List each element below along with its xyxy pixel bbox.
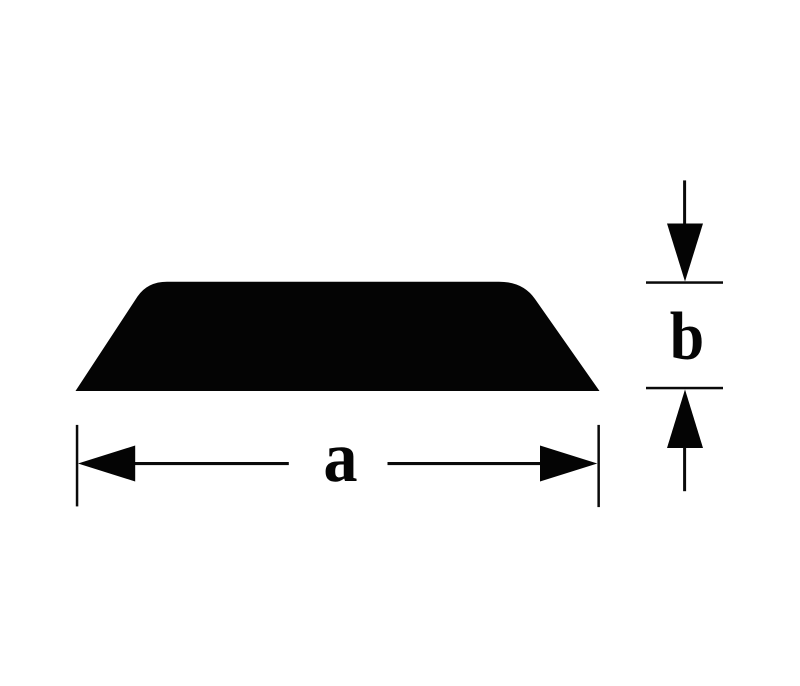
arrowhead b up: [667, 390, 703, 449]
arrowhead a left: [78, 446, 135, 482]
dimension line a, left segment: [130, 462, 289, 465]
arrowhead a right: [540, 446, 597, 482]
svg-text:a: a: [323, 417, 357, 497]
tick line b bottom: [646, 387, 723, 390]
dimension b, upper vertical line: [683, 180, 686, 224]
arrowhead b down: [667, 224, 703, 282]
dimension b, lower vertical line: [683, 447, 686, 491]
profile cross-section (black trapezoid with rounded top corners): [76, 282, 600, 391]
svg-text:b: b: [670, 299, 704, 374]
tick line b top: [646, 281, 723, 284]
extension line left (dimension a): [76, 425, 79, 507]
dimension line a, right segment: [388, 462, 546, 465]
extension line right (dimension a): [597, 425, 600, 507]
